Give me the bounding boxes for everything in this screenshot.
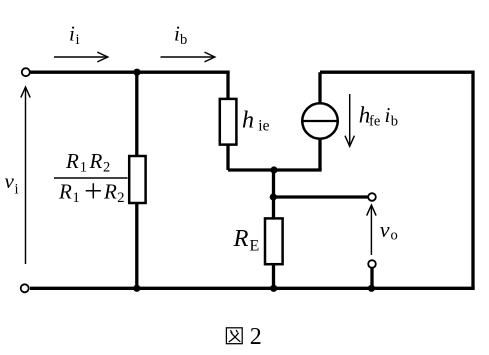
svg-text:1: 1 (73, 190, 80, 206)
svg-text:i: i (385, 103, 391, 127)
svg-text:2: 2 (117, 190, 124, 206)
svg-text:i: i (76, 32, 80, 48)
svg-text:R: R (58, 180, 72, 204)
svg-text:1: 1 (80, 160, 87, 176)
svg-text:o: o (391, 228, 398, 244)
svg-text:E: E (250, 238, 260, 255)
svg-text:R: R (89, 149, 103, 173)
svg-text:b: b (180, 32, 187, 48)
svg-text:h: h (242, 108, 254, 134)
svg-text:R: R (233, 225, 249, 252)
svg-text:R: R (65, 149, 79, 173)
svg-text:fe: fe (369, 114, 380, 130)
svg-text:2: 2 (103, 160, 110, 176)
svg-text:2: 2 (250, 324, 262, 350)
svg-text:v: v (5, 169, 15, 193)
svg-text:R: R (103, 180, 117, 204)
svg-text:i: i (15, 182, 19, 198)
svg-text:v: v (380, 217, 390, 242)
svg-text:b: b (391, 114, 398, 130)
svg-text:ie: ie (258, 118, 269, 135)
svg-text:i: i (69, 22, 75, 46)
